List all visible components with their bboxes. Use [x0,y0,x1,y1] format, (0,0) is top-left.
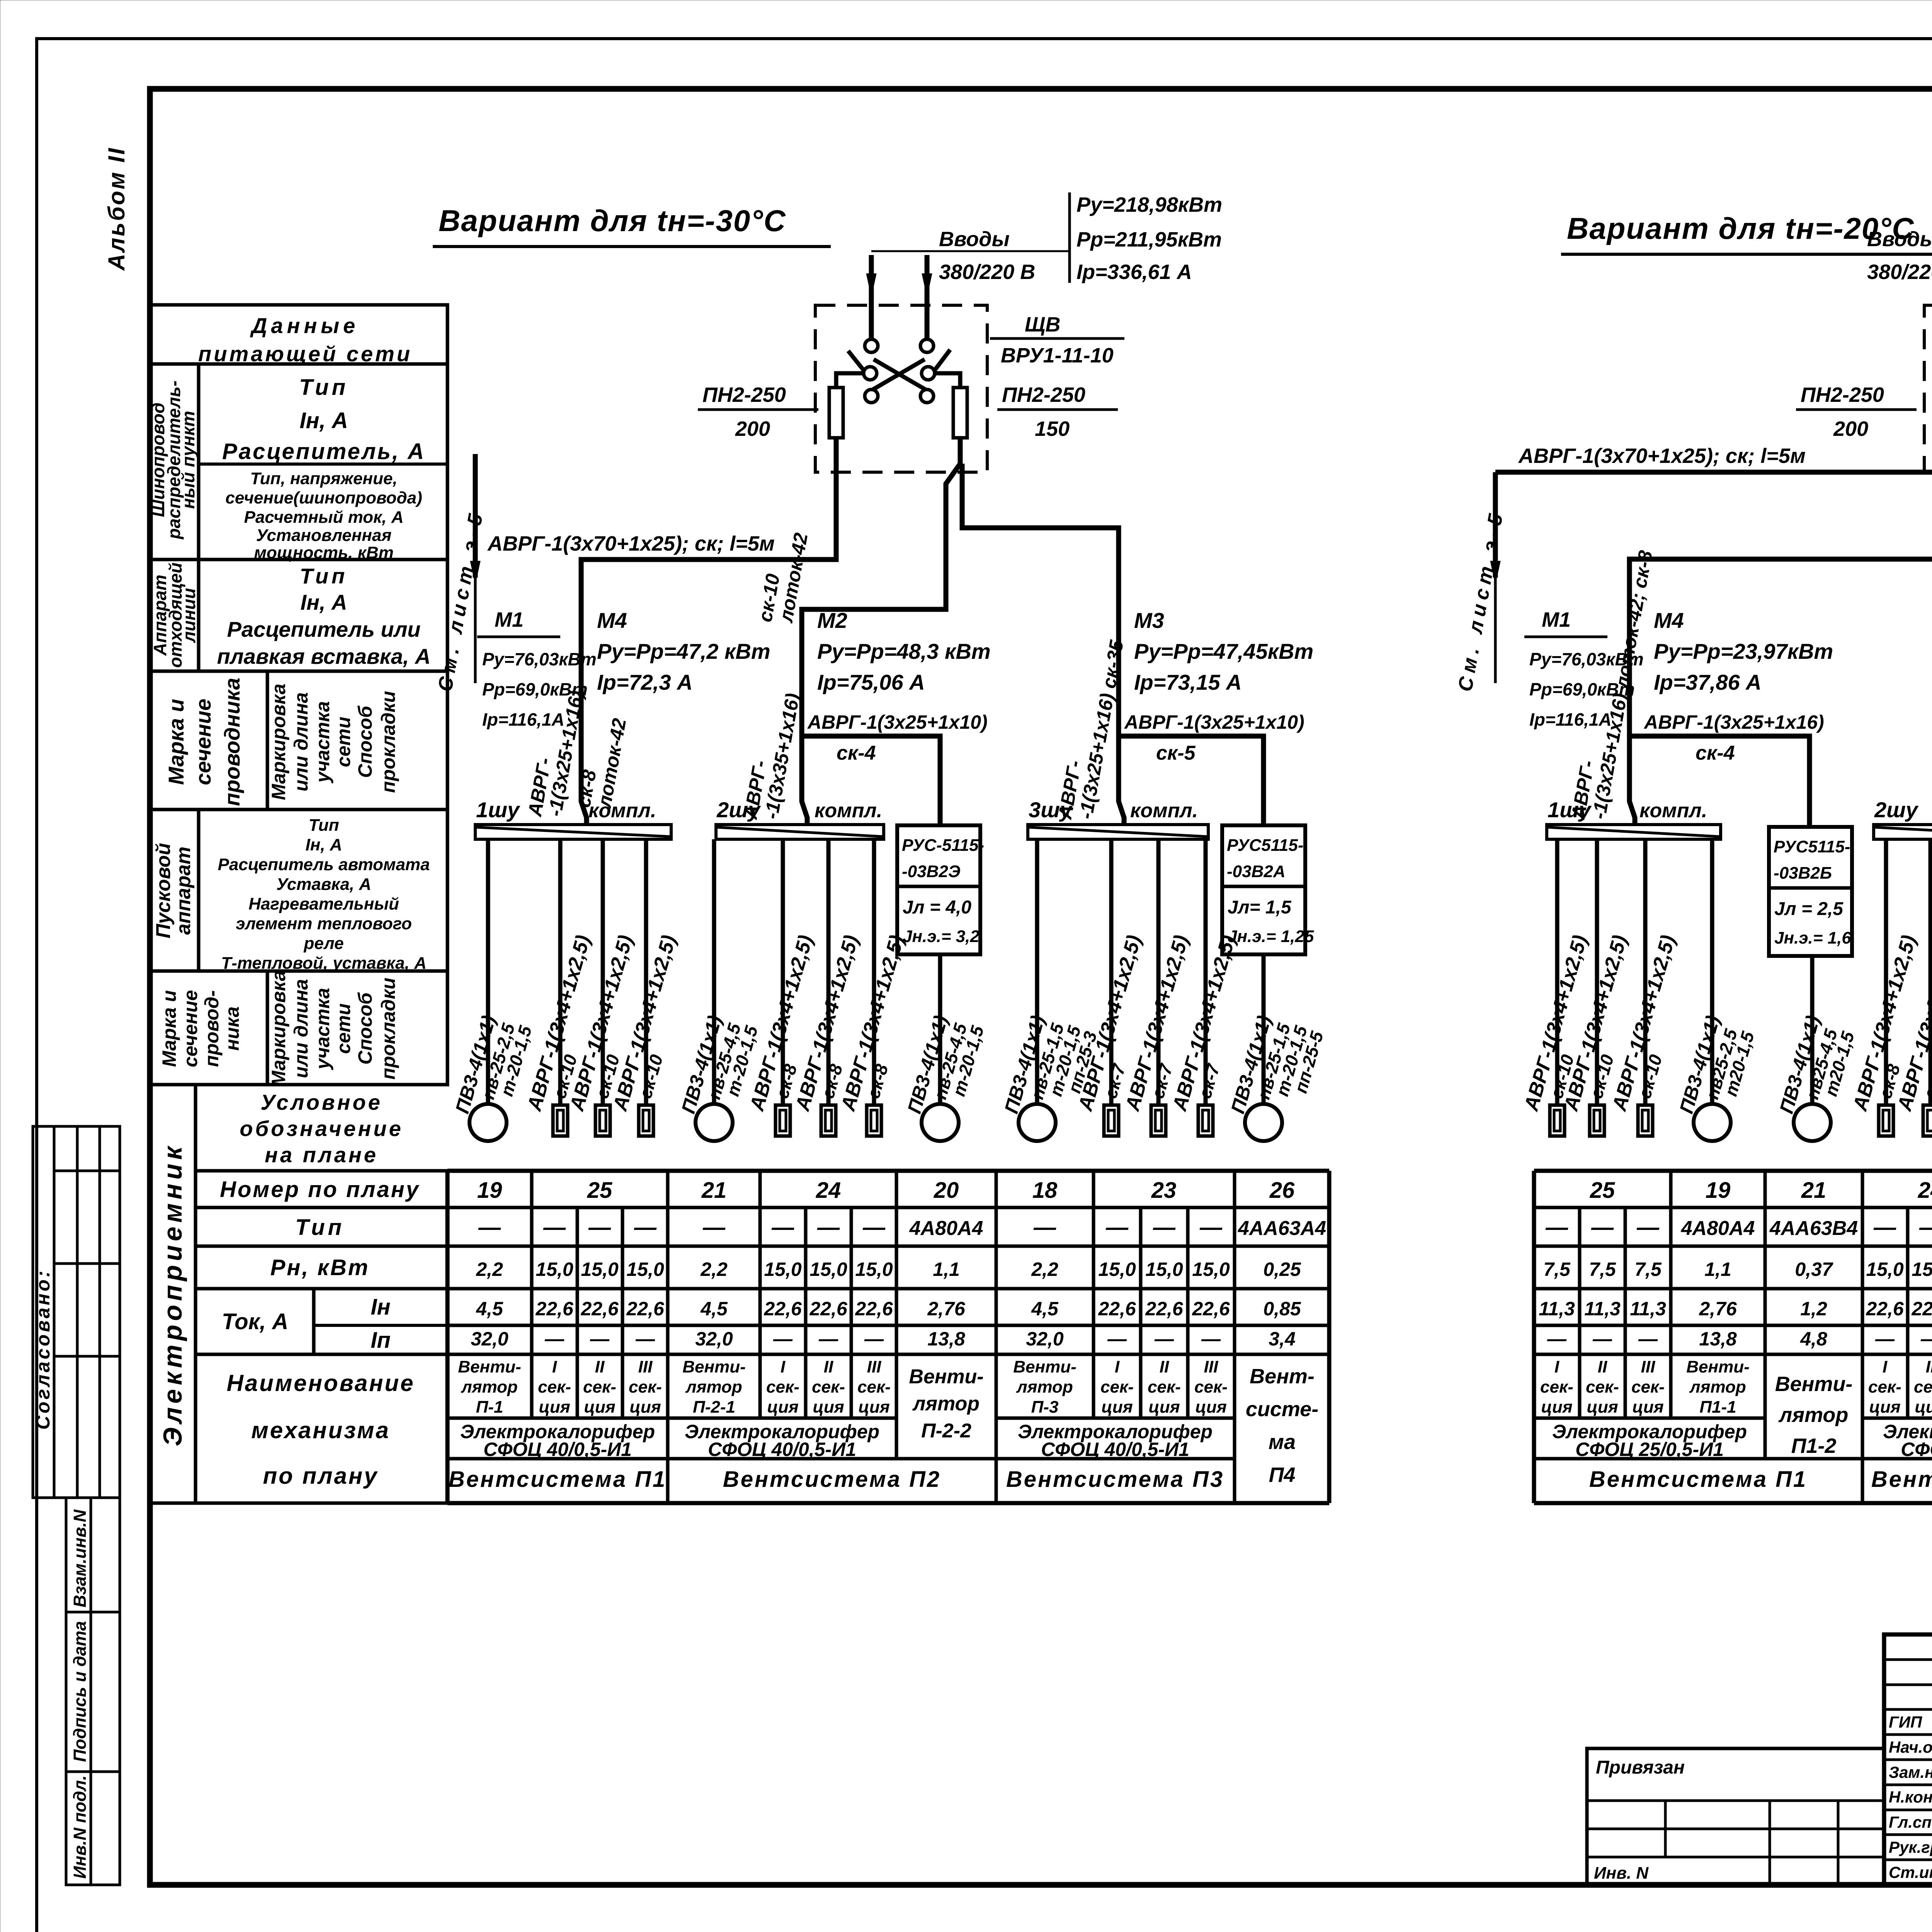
svg-text:22,6: 22,6 [580,1298,619,1320]
svg-text:22,6: 22,6 [764,1298,802,1320]
svg-text:ция: ция [1148,1398,1180,1417]
svg-text:Установленная: Установленная [256,526,392,545]
bus 2шу [1874,825,1932,839]
bus 1шу [475,825,671,839]
svg-text:Iр=37,86 А: Iр=37,86 А [1654,670,1762,694]
svg-text:2,76: 2,76 [927,1298,966,1320]
bus 3шу [1028,825,1208,839]
svg-text:19: 19 [1706,1178,1731,1203]
svg-text:Способ: Способ [354,992,376,1065]
svg-text:26: 26 [1269,1178,1295,1203]
svg-text:сек-: сек- [1540,1378,1573,1396]
svg-text:Нагревательный: Нагревательный [248,895,399,913]
svg-text:Iн: Iн [371,1294,390,1320]
motor 26 П4 [1245,1104,1282,1141]
svg-text:1шу: 1шу [476,798,520,822]
svg-text:Тип: Тип [300,564,348,588]
svg-text:Взам.инв.N: Взам.инв.N [70,1509,90,1607]
svg-text:15,0: 15,0 [855,1259,893,1280]
svg-text:по плану: по плану [263,1463,379,1489]
svg-text:СФОЦ 40/0,5-И1: СФОЦ 40/0,5-И1 [708,1439,856,1460]
svg-text:Вариант для tн=-30°С: Вариант для tн=-30°С [439,204,786,238]
wire М4 в2: to bus 1шу [1629,472,1932,801]
svg-text:I: I [552,1357,557,1376]
feeder wire to heater section [1595,839,1599,1105]
svg-text:М4: М4 [1654,608,1684,633]
feeder wire to heater section [1929,839,1932,1105]
svg-text:М4: М4 [597,608,627,633]
svg-text:2шу: 2шу [1874,798,1919,822]
svg-text:ный пункт: ный пункт [178,411,198,509]
svg-text:Тип, напряжение,: Тип, напряжение, [250,469,397,488]
svg-text:15,0: 15,0 [1912,1259,1932,1280]
блок Привязан [1587,1748,1884,1885]
svg-text:М3: М3 [1134,608,1164,633]
svg-text:Электроприемник: Электроприемник [158,1143,187,1446]
title block signature grid [1884,1658,1932,1661]
svg-text:—: — [1199,1215,1223,1240]
svg-text:—: — [818,1328,838,1350]
svg-text:компл.: компл. [815,799,882,822]
svg-text:СФОЦ 40/0,5 - И1: СФОЦ 40/0,5 - И1 [1901,1439,1932,1460]
heater element symbol [1638,1105,1653,1136]
svg-text:19: 19 [477,1178,502,1203]
motor 20 П-2-2 [922,1104,959,1141]
svg-text:4,5: 4,5 [1031,1298,1059,1320]
svg-text:Iр=75,06 А: Iр=75,06 А [817,670,925,694]
svg-text:Ст.инж.: Ст.инж. [1889,1863,1932,1881]
svg-text:Марка и: Марка и [164,699,188,785]
feeder wire to heater section [781,839,785,1105]
wire РУС to motor 20 [938,954,942,1104]
svg-text:Венти-: Венти- [458,1357,521,1376]
svg-text:сек-: сек- [538,1378,571,1396]
svg-text:—: — [478,1215,501,1240]
bus 2шу [716,825,884,839]
svg-text:1,2: 1,2 [1800,1298,1827,1320]
svg-text:Гл.спец.: Гл.спец. [1889,1813,1932,1831]
svg-text:I: I [1883,1357,1888,1376]
header row Пусковой аппарат [150,810,447,971]
svg-text:провод-: провод- [201,990,223,1067]
svg-text:25: 25 [587,1178,612,1203]
svg-text:—: — [864,1328,884,1350]
svg-text:11,3: 11,3 [1584,1298,1621,1320]
svg-text:—: — [1153,1215,1176,1240]
incoming feeder 2 with arrow [925,255,930,338]
svg-text:Вент-: Вент- [1250,1365,1315,1388]
switchboard ЩВ dashed box [1924,305,1932,472]
svg-text:П1-2: П1-2 [1791,1434,1837,1458]
svg-text:Рук.гр.: Рук.гр. [1889,1838,1932,1856]
svg-text:ма: ма [1269,1430,1296,1454]
svg-text:—: — [1591,1215,1614,1240]
svg-text:Ру=218,98кВт: Ру=218,98кВт [1077,193,1222,216]
header row Марка и сечение проводника (нижний) [150,971,447,1085]
svg-text:компл.: компл. [1130,799,1198,822]
data table frame [1534,1169,1932,1173]
svg-text:4,5: 4,5 [700,1298,728,1320]
svg-text:реле: реле [303,934,344,953]
svg-text:II: II [824,1357,833,1376]
svg-text:сек-: сек- [1100,1378,1134,1396]
header table: row Данные питающей сети [150,305,447,560]
changeover switch [865,339,878,352]
svg-text:Маркировка: Маркировка [268,684,289,800]
wire М3: ЩВ to bus 3шу [962,464,1119,801]
svg-text:сек-: сек- [766,1378,799,1396]
svg-text:22,6: 22,6 [1866,1298,1904,1320]
margin stamp Подпись и дата [66,1612,120,1772]
svg-text:—: — [543,1215,566,1240]
svg-text:Расцепитель или: Расцепитель или [227,617,420,641]
feeder wire to heater section [1156,839,1161,1105]
svg-text:Ток, А: Ток, А [222,1309,288,1334]
svg-text:—: — [1592,1328,1612,1350]
svg-text:—: — [588,1215,611,1240]
svg-text:20: 20 [934,1178,959,1203]
svg-text:обозначение: обозначение [240,1116,403,1141]
svg-text:3,4: 3,4 [1269,1328,1296,1350]
svg-text:сек-: сек- [1586,1378,1619,1396]
svg-text:18: 18 [1032,1178,1058,1203]
svg-text:Уставка, А: Уставка, А [276,875,371,894]
svg-text:П-3: П-3 [1031,1398,1059,1417]
svg-text:—: — [1154,1328,1174,1350]
svg-text:Ру=Рр=23,97кВт: Ру=Рр=23,97кВт [1654,639,1833,663]
svg-text:ск-4: ск-4 [837,742,876,764]
svg-text:—: — [1107,1328,1127,1350]
feeder wire to heater section [1884,839,1888,1105]
svg-text:линии: линии [179,588,199,643]
svg-text:22,6: 22,6 [855,1298,893,1320]
svg-text:Iр=116,1А: Iр=116,1А [1529,709,1612,730]
header cell Наименование механизма по плану [196,1353,447,1356]
svg-text:сек-: сек- [1868,1378,1901,1396]
svg-text:сек-: сек- [1631,1378,1665,1396]
svg-text:-03В2А: -03В2А [1227,862,1286,881]
svg-text:Вентсистема П2: Вентсистема П2 [723,1467,941,1492]
svg-text:23: 23 [1151,1178,1177,1203]
svg-text:III: III [1641,1357,1655,1376]
heater element symbol [867,1105,881,1136]
svg-text:ция: ция [813,1398,844,1417]
svg-text:Iр=116,1А: Iр=116,1А [482,709,565,730]
svg-text:АВРГ-1(3х25+1х10): АВРГ-1(3х25+1х10) [1124,711,1304,733]
feeder wire to motor [1710,839,1714,1104]
svg-text:Iн, А: Iн, А [305,835,342,854]
svg-text:лятор: лятор [1778,1403,1849,1427]
svg-text:ция: ция [767,1398,798,1417]
svg-text:—: — [634,1215,657,1240]
svg-text:—: — [1033,1215,1056,1240]
svg-text:АВРГ-1(3х25+1х16): АВРГ-1(3х25+1х16) [1643,711,1824,733]
svg-text:сети: сети [333,1003,354,1054]
svg-text:Венти-: Венти- [1686,1357,1749,1376]
header row Марка и сечение проводника [150,671,447,810]
svg-text:ЩВ: ЩВ [1025,313,1060,336]
svg-text:сек-: сек- [1148,1378,1181,1396]
svg-text:сечение: сечение [180,990,201,1067]
svg-text:Вентсистема П1: Вентсистема П1 [449,1467,667,1492]
svg-text:ция: ция [1632,1398,1663,1417]
starter box РУС-5115--03В2Э [897,825,980,954]
wire М4: ЩВ to bus 1шу [581,438,836,801]
svg-text:15,0: 15,0 [1098,1259,1136,1280]
heater element symbol [1198,1105,1213,1136]
svg-text:200: 200 [1833,417,1868,440]
svg-text:Ру=Рр=47,2 кВт: Ру=Рр=47,2 кВт [597,639,770,663]
svg-text:—: — [771,1215,794,1240]
svg-text:Венти-: Венти- [1013,1357,1076,1376]
svg-text:Венти-: Венти- [909,1366,983,1388]
feeder wire to motor [486,839,490,1104]
svg-text:—: — [1201,1328,1221,1350]
svg-text:Маркировка: Маркировка [268,970,289,1087]
svg-text:15,0: 15,0 [1866,1259,1904,1280]
svg-text:22,6: 22,6 [1145,1298,1184,1320]
svg-text:Номер по плану: Номер по плану [220,1177,420,1202]
svg-text:ция: ция [858,1398,889,1417]
svg-text:4А80А4: 4А80А4 [909,1217,983,1240]
svg-text:Венти-: Венти- [1775,1372,1853,1396]
label P values [1068,192,1071,283]
svg-text:ция: ция [1101,1398,1133,1417]
heater element symbol [1923,1105,1932,1136]
heater element symbol [1550,1105,1565,1136]
svg-text:П4: П4 [1269,1463,1296,1486]
svg-text:13,8: 13,8 [1699,1328,1737,1350]
heater element symbol [1590,1105,1604,1136]
svg-text:ция: ция [629,1398,661,1417]
svg-text:—: — [1920,1328,1932,1350]
svg-text:ПН2-250: ПН2-250 [702,383,786,406]
header cell Тип [196,1206,447,1209]
svg-text:лятор: лятор [1689,1378,1746,1396]
svg-text:сек-: сек- [812,1378,845,1396]
svg-text:I: I [1115,1357,1120,1376]
svg-text:21: 21 [1801,1178,1827,1203]
feeder wire to motor [712,839,716,1104]
svg-text:2,76: 2,76 [1699,1298,1737,1320]
svg-text:механизма: механизма [251,1417,390,1443]
svg-text:0,37: 0,37 [1795,1259,1833,1280]
svg-text:Наименование: Наименование [226,1370,415,1396]
svg-text:—: — [1638,1328,1658,1350]
svg-text:П-1: П-1 [476,1398,503,1417]
svg-text:сек-: сек- [857,1378,891,1396]
svg-text:сечение: сечение [191,699,215,785]
svg-text:3шу: 3шу [1029,798,1073,822]
svg-text:Iп: Iп [371,1328,391,1353]
svg-text:III: III [638,1357,653,1376]
svg-text:Нач.отд.: Нач.отд. [1889,1738,1932,1756]
heater element symbol [595,1105,610,1136]
svg-text:15,0: 15,0 [1145,1259,1183,1280]
svg-text:или длина: или длина [290,692,312,792]
svg-text:13,8: 13,8 [927,1328,965,1350]
svg-text:—: — [544,1328,565,1350]
svg-text:Венти-: Венти- [682,1357,745,1376]
heater element symbol [639,1105,653,1136]
svg-text:11,3: 11,3 [1539,1298,1575,1320]
svg-text:4АА63А4: 4АА63А4 [1238,1217,1326,1240]
svg-text:Вводы: Вводы [939,228,1010,251]
svg-text:25: 25 [1590,1178,1615,1203]
svg-text:21: 21 [701,1178,727,1203]
motor circle [1694,1104,1731,1141]
svg-text:Расцепитель, А: Расцепитель, А [222,439,425,464]
svg-text:на плане: на плане [265,1143,378,1167]
branch ск-4 в2 to РУС5115-03В2Б [1629,736,1810,827]
svg-text:15,0: 15,0 [764,1259,802,1280]
svg-text:Расцепитель автомата: Расцепитель автомата [218,855,430,874]
fuse link wires [836,373,862,388]
feeder М1 from sheet э-5 [473,454,478,578]
svg-text:лятор: лятор [685,1378,742,1396]
svg-text:Марка и: Марка и [158,990,180,1067]
svg-text:М1: М1 [495,608,524,631]
svg-text:Способ: Способ [354,705,376,778]
svg-text:—: — [1545,1215,1568,1240]
svg-text:II: II [1160,1357,1169,1376]
svg-text:П1-1: П1-1 [1699,1398,1736,1417]
svg-text:сети: сети [333,717,354,767]
heater element symbol [1879,1105,1893,1136]
svg-text:Iр=72,3 А: Iр=72,3 А [597,670,692,694]
svg-text:—: — [1547,1328,1567,1350]
svg-text:Н.контр.: Н.контр. [1889,1788,1932,1806]
svg-text:1,1: 1,1 [933,1259,960,1280]
svg-text:—: — [590,1328,610,1350]
svg-text:Данные: Данные [250,313,359,338]
svg-text:Вводы: Вводы [1867,228,1932,251]
header cell Рн, кВт [196,1245,447,1248]
svg-text:—: — [1636,1215,1660,1240]
heater element symbol [821,1105,836,1136]
wire to sheet э-5 (М1) [1495,438,1932,472]
svg-text:компл.: компл. [1639,799,1707,822]
svg-text:2,2: 2,2 [476,1259,503,1280]
motor circle [696,1104,733,1141]
svg-text:РУС5115-: РУС5115- [1774,837,1850,856]
margin table Согласовано [33,1126,120,1498]
svg-text:Инв.N подл.: Инв.N подл. [70,1775,90,1879]
svg-text:4,8: 4,8 [1800,1328,1827,1350]
svg-text:24: 24 [816,1178,841,1203]
svg-text:Jн.э.= 1,25: Jн.э.= 1,25 [1228,927,1314,946]
svg-text:Условное: Условное [260,1090,383,1114]
svg-text:или длина: или длина [290,979,312,1078]
svg-text:1,1: 1,1 [1704,1259,1731,1280]
title block frame [1884,1634,1932,1885]
margin stamp Инв.N подл. [66,1772,120,1885]
svg-text:Альбом II: Альбом II [104,147,129,271]
svg-text:сек-: сек- [629,1378,662,1396]
svg-text:Iн, А: Iн, А [299,408,348,433]
svg-text:22,6: 22,6 [1192,1298,1230,1320]
svg-text:аппарат: аппарат [172,847,195,935]
feeder wire to heater section [1555,839,1560,1105]
svg-text:Тип: Тип [299,375,349,400]
svg-text:участка: участка [312,701,333,784]
header row Шинопровод/распределительный пункт [197,364,201,560]
header row Аппарат отходящей линии [150,560,447,671]
wire РУС to motor 21 в2 [1810,956,1815,1104]
svg-text:-03В2Э: -03В2Э [902,862,960,881]
svg-text:Привязан: Привязан [1596,1757,1685,1778]
svg-text:Jл= 1,5: Jл= 1,5 [1228,897,1292,918]
svg-text:Jн.э.= 3,2: Jн.э.= 3,2 [903,927,980,946]
svg-text:Iр=336,61 А: Iр=336,61 А [1077,260,1192,284]
heater element symbol [1151,1105,1166,1136]
svg-text:Iр=73,15 А: Iр=73,15 А [1134,670,1242,694]
svg-text:7,5: 7,5 [1589,1259,1616,1280]
svg-text:Вентсистема П3: Вентсистема П3 [1006,1467,1224,1492]
svg-text:11,3: 11,3 [1630,1298,1666,1320]
svg-text:М2: М2 [817,608,847,633]
svg-text:22,6: 22,6 [809,1298,848,1320]
svg-text:22,6: 22,6 [1098,1298,1136,1320]
svg-text:15,0: 15,0 [810,1259,847,1280]
svg-text:Зам.нач.: Зам.нач. [1889,1763,1932,1781]
svg-text:Тип: Тип [309,816,339,835]
svg-text:15,0: 15,0 [626,1259,664,1280]
feeder wire to heater section [1643,839,1648,1105]
svg-text:Ру=Рр=47,45кВт: Ру=Рр=47,45кВт [1134,639,1313,663]
svg-text:лятор: лятор [912,1393,980,1415]
svg-text:1шу: 1шу [1548,798,1592,822]
motor circle [1019,1104,1056,1141]
feeder wire to heater section [1204,839,1208,1105]
svg-text:2,2: 2,2 [700,1259,728,1280]
svg-text:Ру=76,03кВт: Ру=76,03кВт [482,649,597,669]
svg-text:II: II [1926,1357,1932,1376]
feeder wire to heater section [872,839,876,1105]
svg-text:380/220 В: 380/220 В [1867,260,1932,284]
svg-text:15,0: 15,0 [536,1259,573,1280]
svg-text:—: — [773,1328,793,1350]
svg-text:150: 150 [1035,417,1070,440]
svg-text:лятор: лятор [1016,1378,1073,1396]
svg-text:—: — [1873,1215,1896,1240]
svg-text:компл.: компл. [588,799,656,822]
svg-text:0,25: 0,25 [1263,1259,1301,1280]
header cell Номер по плану [196,1169,447,1173]
table v2 vertical lines [1532,1171,1536,1503]
margin stamp Взам.инв.N [66,1498,120,1612]
svg-text:сечение(шинопровода): сечение(шинопровода) [225,488,422,507]
wire М2: ЩВ to bus 2шу [802,438,960,801]
svg-text:Тип: Тип [295,1215,345,1240]
svg-text:прокладки: прокладки [378,978,399,1080]
svg-text:сек-: сек- [1914,1378,1932,1396]
svg-text:Вентсистема П2: Вентсистема П2 [1871,1467,1932,1492]
svg-text:ника: ника [221,1007,243,1051]
svg-text:II: II [1598,1357,1607,1376]
svg-text:АВРГ-1(3х25+1х10): АВРГ-1(3х25+1х10) [807,711,988,733]
svg-text:7,5: 7,5 [1634,1259,1662,1280]
svg-text:СФОЦ 40/0,5-И1: СФОЦ 40/0,5-И1 [1041,1439,1189,1460]
svg-text:СФОЦ 40/0,5-И1: СФОЦ 40/0,5-И1 [483,1439,632,1460]
svg-text:ГИП: ГИП [1889,1713,1922,1731]
branch ск-4 to РУС-5115-03В2Э [802,736,940,825]
svg-text:ВРУ1-11-10: ВРУ1-11-10 [1001,344,1114,367]
svg-text:22,6: 22,6 [1911,1298,1932,1320]
feeder wire to heater section [644,839,648,1105]
svg-text:проводника: проводника [220,678,244,806]
svg-text:АВРГ-1(3х70+1х25); ск; l=5м: АВРГ-1(3х70+1х25); ск; l=5м [487,532,775,555]
